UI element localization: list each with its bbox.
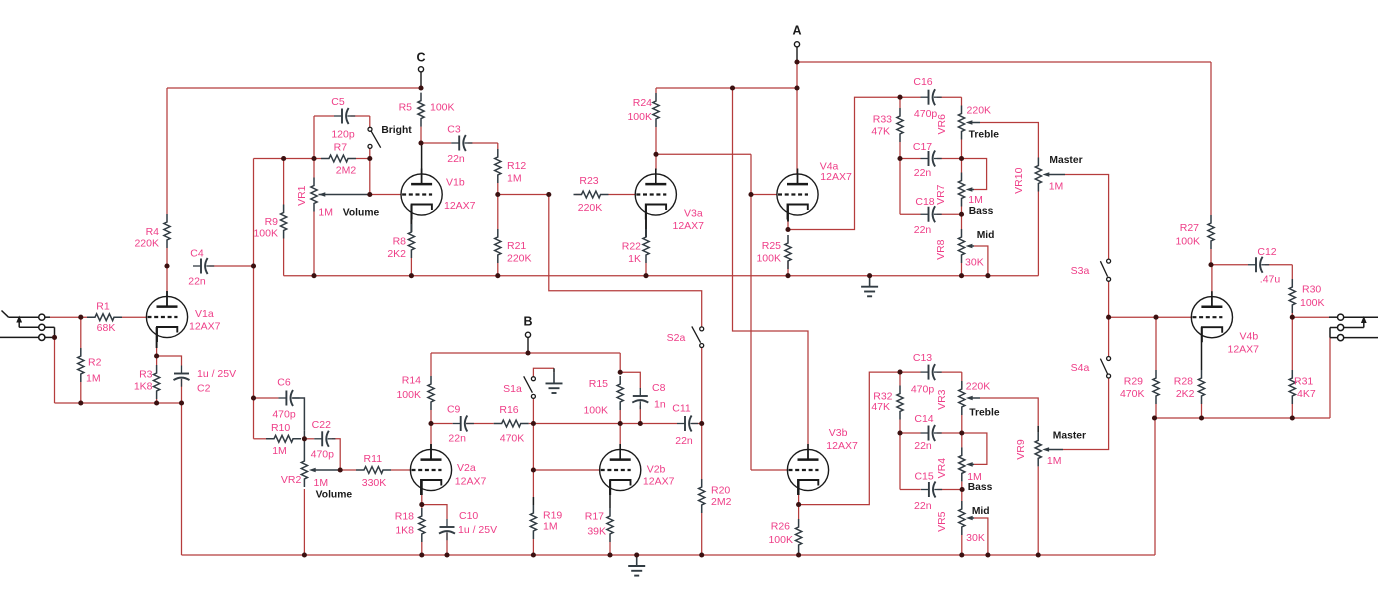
junction at (900,433) (897, 430, 902, 435)
wire R25 bottom (787, 261, 789, 276)
junction at (340.2,470) (338, 467, 343, 472)
wire B rail (431, 352, 620, 354)
junction at (656,154.3) (653, 152, 658, 157)
svg-text:12AX7: 12AX7 (1228, 344, 1260, 356)
wire VR6 bottom to C17 node (961, 140, 963, 159)
wire R15 bottom to lower mix bus (619, 410, 621, 424)
wire R5 bottom to C3 junction (420, 127, 422, 143)
svg-text:470p: 470p (911, 384, 935, 396)
svg-text:S1a: S1a (503, 383, 522, 395)
svg-text:39K: 39K (587, 526, 606, 538)
wire jack sleeve drop (1329, 338, 1331, 418)
wire VR2 wiper to R11 (313, 469, 340, 471)
resistor R22 (643, 229, 649, 263)
potentiometer VR1 (311, 178, 317, 212)
wire C17 row (900, 158, 921, 160)
junction at (797,62) (794, 59, 799, 64)
capacitor C14 (921, 432, 929, 434)
svg-text:C5: C5 (331, 96, 345, 108)
svg-text:R28: R28 (1174, 376, 1193, 388)
svg-text:VR4: VR4 (936, 458, 948, 479)
wire R7 junction down to V1b grid node (369, 159, 371, 195)
wire VR10 wiper to S3a (1046, 174, 1065, 176)
wire VR3 top lead (961, 372, 963, 381)
wire R24 top corner (655, 88, 657, 93)
resistor R4 (164, 214, 170, 248)
svg-text:100K: 100K (1300, 297, 1325, 309)
resistor R26 (796, 519, 802, 553)
wire R17 bottom (609, 542, 611, 555)
wire V4a cathode junction (787, 222, 789, 230)
svg-text:C17: C17 (913, 141, 932, 153)
wire R27 feed from A rail (1210, 62, 1212, 215)
wire R29 top lead (1155, 317, 1157, 370)
junction at (497.8,275.7) (495, 273, 500, 278)
capacitor C22 (314, 438, 322, 440)
svg-text:R27: R27 (1180, 222, 1199, 234)
svg-text:Mid: Mid (972, 506, 990, 517)
wire C22 left lead (304, 438, 314, 440)
junction at (80.8,403) (78, 400, 83, 405)
potentiometer VR2 (301, 453, 307, 487)
svg-text:R3: R3 (139, 369, 153, 381)
junction at (1292.3,418) (1290, 415, 1295, 420)
svg-text:R25: R25 (762, 240, 781, 252)
junction at (421,88) (418, 85, 423, 90)
svg-text:1K: 1K (628, 253, 641, 265)
wire C22 right corner down to VR2 wiper node (332, 439, 340, 470)
wire C16 row right portion (937, 96, 962, 98)
svg-text:47K: 47K (871, 126, 890, 138)
wire R24 bottom to V3a plate (655, 127, 657, 154)
wire C13 row (900, 371, 921, 373)
wire R29 bottom (1155, 404, 1157, 418)
junction at (788,275.7) (785, 273, 790, 278)
svg-text:VR9: VR9 (1015, 439, 1027, 460)
junction at (620.2,423.5) (618, 421, 623, 426)
junction at (167,266) (164, 263, 169, 268)
junction at (528,353) (525, 350, 530, 355)
junction at (421.8,504.6) (419, 502, 424, 507)
resistor R25 (785, 235, 791, 269)
svg-text:22n: 22n (188, 276, 206, 288)
capacitor C12 (1248, 264, 1256, 266)
svg-text:22n: 22n (448, 433, 466, 445)
svg-text:C2: C2 (197, 383, 211, 395)
junction at (701.7,423.5) (699, 421, 704, 426)
svg-text:V1a: V1a (195, 308, 214, 320)
svg-text:S3a: S3a (1071, 265, 1090, 277)
wire C9 left lead (431, 423, 453, 425)
resistor R1 (87, 314, 122, 321)
svg-text:4K7: 4K7 (1297, 388, 1316, 400)
wire V4b cathode to R28 (1201, 327, 1203, 370)
wire V1a cathode junction (156, 348, 158, 356)
wire VR5 top lead (961, 490, 963, 502)
triode V1b (401, 174, 442, 215)
junction at (797,88) (794, 85, 799, 90)
resistor R23 (574, 191, 609, 198)
wire VR7 top lead (961, 159, 963, 173)
wire VR3 wiper to VR9 top (969, 397, 980, 399)
svg-text:R18: R18 (395, 511, 414, 523)
junction at (987.9,275.7) (985, 273, 990, 278)
svg-text:R11: R11 (364, 453, 383, 465)
resistor R19 (530, 505, 536, 539)
wire C16 left lead red (900, 96, 921, 98)
wire input to R1 (50, 316, 87, 318)
wire output node to jack tip (1292, 316, 1329, 318)
svg-text:R10: R10 (271, 422, 290, 434)
wire C14 row (900, 432, 921, 434)
wire C6 right corner down to R10 node (293, 398, 305, 431)
svg-text:Volume: Volume (343, 208, 380, 219)
svg-text:Bright: Bright (381, 125, 412, 136)
svg-text:2K2: 2K2 (387, 248, 406, 260)
svg-text:R15: R15 (589, 378, 608, 390)
triode V2b (600, 449, 641, 490)
ground symbol lower (636, 555, 638, 566)
svg-text:1u / 25V: 1u / 25V (197, 368, 236, 380)
junction at (253.5,266) (251, 263, 256, 268)
wire C3 row (421, 142, 451, 144)
wire S1a drop (532, 398, 534, 423)
wire V4b grid node to S4a (1108, 317, 1110, 356)
junction at (1156,317.2) (1153, 315, 1158, 320)
wire B rail right corner down to R15/C8 node (619, 353, 621, 372)
wire A rail (797, 61, 1211, 63)
wire VR1 top lead (313, 159, 315, 178)
wire ground bus riser from bottom bus (1154, 418, 1156, 555)
svg-text:220K: 220K (967, 105, 992, 117)
svg-text:Bass: Bass (969, 206, 994, 217)
svg-text:R5: R5 (399, 102, 413, 114)
wire R19 bottom (532, 539, 534, 555)
wire C4 right to volume feed column (210, 265, 254, 267)
resistor R29 (1153, 370, 1159, 404)
svg-text:100K: 100K (768, 534, 793, 546)
wire VR7 wiper loop to treble-bass node (969, 189, 974, 191)
resistor R15 (617, 376, 623, 410)
resistor R21 (495, 229, 501, 263)
capacitor C2 (181, 366, 183, 374)
wire V1a cathode bus (55, 402, 182, 404)
wire VR8 top lead (961, 214, 963, 229)
svg-text:1M: 1M (543, 521, 558, 533)
capacitor C8 (639, 388, 641, 396)
svg-text:30K: 30K (966, 532, 985, 544)
junction at (900,372.1) (897, 370, 902, 375)
triode V3b (787, 449, 828, 490)
junction at (1154.5,418) (1152, 415, 1157, 420)
wire VR7 bottom to bass node (961, 207, 963, 215)
wire R18 bottom (421, 542, 423, 555)
svg-text:12AX7: 12AX7 (189, 321, 221, 333)
wire VR8 bottom to ground rail (961, 263, 963, 276)
junction at (156.6,403) (154, 400, 159, 405)
junction at (732.5,88) (730, 85, 735, 90)
wire V3b grid stub (751, 469, 787, 471)
resistor R12 (495, 149, 501, 183)
junction at (548.8,194.5) (546, 192, 551, 197)
wire input jack sleeve drop (54, 337, 56, 403)
wire R3 top lead (156, 356, 158, 365)
switch S4a (1107, 357, 1111, 361)
wire R30 bottom to output node (1291, 313, 1293, 317)
wire S4a to VR9 wiper (1063, 378, 1109, 450)
svg-text:1M: 1M (968, 194, 983, 206)
wire V1b plate node to R23 (498, 194, 549, 196)
wire R32 top lead (899, 372, 901, 385)
triode V1a (146, 296, 187, 337)
svg-text:A: A (792, 23, 801, 37)
wire A-feed rail R24 to V4a plate column (656, 87, 797, 89)
resistor R7 (321, 155, 356, 162)
resistor R28 (1198, 370, 1204, 404)
svg-text:12AX7: 12AX7 (455, 475, 487, 487)
resistor R10 (266, 435, 301, 442)
wire VR1 wiper to V1b grid (319, 194, 370, 196)
svg-text:C22: C22 (312, 419, 331, 431)
wire C9 to R16 (466, 423, 494, 425)
potentiometer VR7 bass (958, 173, 964, 207)
resistor R3 (154, 365, 160, 399)
wire R32 bottom lead (899, 420, 901, 434)
wire C2 bottom (181, 379, 183, 403)
svg-text:1M: 1M (86, 373, 101, 385)
wire R21 bottom (497, 263, 499, 276)
svg-text:V2a: V2a (457, 462, 476, 474)
svg-text:VR6: VR6 (936, 114, 948, 135)
svg-text:2M2: 2M2 (711, 496, 732, 508)
svg-text:VR7: VR7 (935, 184, 947, 205)
junction at (314,275.7) (311, 273, 316, 278)
wire C12 right corner down to R30 (1291, 265, 1293, 279)
junction at (1292.3,317.2) (1290, 315, 1295, 320)
svg-text:12AX7: 12AX7 (643, 475, 675, 487)
wire V1a plate feed down from C rail (166, 88, 168, 214)
wire volume top rail (254, 158, 322, 160)
capacitor C18 (921, 213, 929, 215)
capacitor C11 (677, 423, 685, 425)
junction at (1201.5,418) (1199, 415, 1204, 420)
svg-text:1M: 1M (272, 445, 287, 457)
svg-text:V3a: V3a (684, 208, 703, 220)
wire V2a cathode junction (421, 495, 423, 505)
wire R27 bottom to C12 node (1210, 249, 1212, 265)
wire VR8 wiper drop to ground rail (969, 245, 974, 247)
node A lead (796, 47, 798, 62)
resistor R27 (1208, 215, 1214, 249)
wire V4a grid stub (751, 194, 777, 196)
wire C18 row (900, 213, 921, 215)
svg-text:330K: 330K (362, 477, 387, 489)
wire R26 bottom (798, 553, 800, 555)
switch S2a (700, 327, 704, 331)
wire R4 bottom to C4 junction (166, 248, 168, 266)
svg-text:22n: 22n (914, 224, 932, 236)
svg-text:R20: R20 (711, 485, 730, 497)
svg-text:C14: C14 (914, 413, 933, 425)
wire bright switch to R7 junction (369, 148, 371, 158)
wire VR6 top lead (961, 97, 963, 105)
wire V3b cathode junction (798, 495, 800, 505)
svg-text:Bass: Bass (968, 482, 993, 493)
resistor R17 (607, 508, 613, 542)
junction at (533.4,470) (531, 467, 536, 472)
wire C5 row (314, 115, 334, 117)
resistor R32 (897, 386, 903, 420)
wire C-rail from R4 top to R5 top (167, 87, 421, 89)
junction at (610,555) (607, 552, 612, 557)
svg-text:100K: 100K (430, 102, 455, 114)
junction at (788,229.5) (785, 227, 790, 232)
wire R16 right to S1a node (529, 423, 534, 425)
svg-text:1M: 1M (1049, 181, 1064, 193)
svg-text:22n: 22n (914, 167, 932, 179)
ground symbol upper (869, 276, 871, 287)
capacitor C10 (446, 519, 448, 527)
svg-text:Master: Master (1053, 430, 1086, 441)
wire V4a cathode to upper tone stack feed riser (788, 97, 900, 229)
resistor R31 (1289, 370, 1295, 404)
wire VR2 top lead (303, 431, 305, 453)
svg-text:C13: C13 (913, 352, 932, 364)
wire S3a to V4b grid node (1108, 281, 1110, 317)
junction at (314,158.5) (311, 156, 316, 161)
wire C15 row (900, 489, 921, 491)
triode V3a (635, 174, 676, 215)
wire C11 left lead (640, 423, 677, 425)
junction at (636.7,555) (634, 552, 639, 557)
svg-text:.47u: .47u (1260, 274, 1281, 286)
wire VR5 bottom to bottom bus (961, 535, 963, 555)
wire C8 top feed (620, 372, 640, 388)
svg-text:1K8: 1K8 (134, 381, 153, 393)
svg-text:C: C (416, 51, 425, 65)
potentiometer VR8 mid (958, 229, 964, 263)
junction at (646,275.7) (643, 273, 648, 278)
junction at (640.3,423.5) (638, 421, 643, 426)
svg-text:1M: 1M (507, 173, 522, 185)
svg-text:100K: 100K (583, 405, 608, 417)
wire S1a top to ground (533, 368, 554, 376)
wire VR6 wiper to VR10 top (969, 122, 980, 124)
wire V2b cathode to R17 (609, 495, 611, 508)
junction at (701.7,555) (699, 552, 704, 557)
wire VR4 wiper loop (969, 463, 974, 465)
svg-text:R24: R24 (633, 97, 652, 109)
node B lead (527, 337, 529, 353)
svg-text:V1b: V1b (446, 177, 465, 189)
potentiometer VR4 bass (959, 447, 965, 481)
wire S2a top feed from upper channel (549, 195, 702, 327)
svg-text:470p: 470p (914, 108, 938, 120)
svg-text:C3: C3 (447, 124, 461, 136)
wire R31 top (1291, 317, 1293, 370)
wire C3 right corner down to R12 (497, 143, 499, 149)
svg-text:R2: R2 (88, 357, 102, 369)
junction at (431,423.5) (428, 421, 433, 426)
resistor R16 (494, 420, 529, 427)
svg-text:1M: 1M (1047, 455, 1062, 467)
svg-text:C9: C9 (447, 404, 461, 416)
svg-text:470K: 470K (500, 432, 525, 444)
svg-text:VR2: VR2 (281, 474, 302, 486)
svg-text:C8: C8 (652, 382, 666, 394)
capacitor C16 (921, 96, 929, 98)
wire V4b plate feed (1211, 265, 1213, 297)
svg-text:C10: C10 (459, 510, 478, 522)
svg-text:R33: R33 (873, 114, 892, 126)
node B terminal (525, 332, 530, 337)
capacitor C15 (921, 489, 929, 491)
wire lower mix bus (533, 423, 620, 425)
junction at (620.2,372.25) (618, 370, 623, 375)
wire C12 row (1211, 264, 1248, 266)
wire VR4 bottom to lower bass node (961, 481, 963, 489)
svg-text:2M2: 2M2 (336, 165, 357, 177)
svg-text:12AX7: 12AX7 (444, 200, 476, 212)
svg-text:R14: R14 (402, 375, 421, 387)
svg-text:VR3: VR3 (936, 389, 948, 410)
wire C4 junction down to V1a plate (166, 266, 168, 291)
svg-text:C12: C12 (1257, 246, 1276, 258)
svg-text:V4b: V4b (1240, 330, 1259, 342)
wire VR4 top lead (961, 433, 963, 447)
wire R9 top lead (283, 159, 285, 205)
wire VR10 bottom to upper ground rail (1037, 192, 1039, 276)
svg-text:R30: R30 (1302, 284, 1321, 296)
svg-text:220K: 220K (578, 202, 603, 214)
wire R23 right to V3a grid (609, 194, 636, 196)
wire C node lead (420, 72, 422, 88)
svg-text:R16: R16 (499, 404, 518, 416)
svg-text:2K2: 2K2 (1176, 388, 1195, 400)
junction at (1211,264.75) (1208, 262, 1213, 267)
capacitor C13 (921, 371, 929, 373)
junction at (987.9,555) (985, 552, 990, 557)
capacitor C17 (921, 158, 929, 160)
wire R1 to V1a grid (122, 316, 146, 318)
svg-text:100K: 100K (627, 111, 652, 123)
junction at (798.6,555) (796, 552, 801, 557)
wire R2 top lead (80, 317, 82, 348)
svg-text:68K: 68K (97, 322, 116, 334)
wire C14 node down to C15 row (899, 433, 901, 490)
wire R20 bottom (701, 513, 703, 555)
capacitor C6 (278, 397, 286, 399)
wire V2a plate feed (430, 424, 432, 445)
wire V2b grid row (533, 469, 599, 471)
wire B rail left corner down to R14 (430, 353, 432, 376)
wire R33 bottom lead (899, 142, 901, 159)
wire VR1 bottom to ground rail (313, 212, 315, 276)
resistor R33 (897, 108, 903, 142)
switch S-bright (368, 127, 372, 131)
svg-text:C6: C6 (277, 377, 291, 389)
wire S2a node drop (701, 348, 703, 424)
wire R3 bottom (156, 399, 158, 403)
junction at (962.1,489.5) (960, 487, 965, 492)
wire bottom ground bus (182, 554, 1156, 556)
wire R20 top (701, 424, 703, 480)
junction at (156.6,356) (154, 353, 159, 358)
switch S3a (1107, 259, 1111, 263)
svg-text:220K: 220K (966, 380, 991, 392)
wire R8 bottom (410, 258, 412, 276)
svg-text:Volume: Volume (316, 490, 353, 501)
